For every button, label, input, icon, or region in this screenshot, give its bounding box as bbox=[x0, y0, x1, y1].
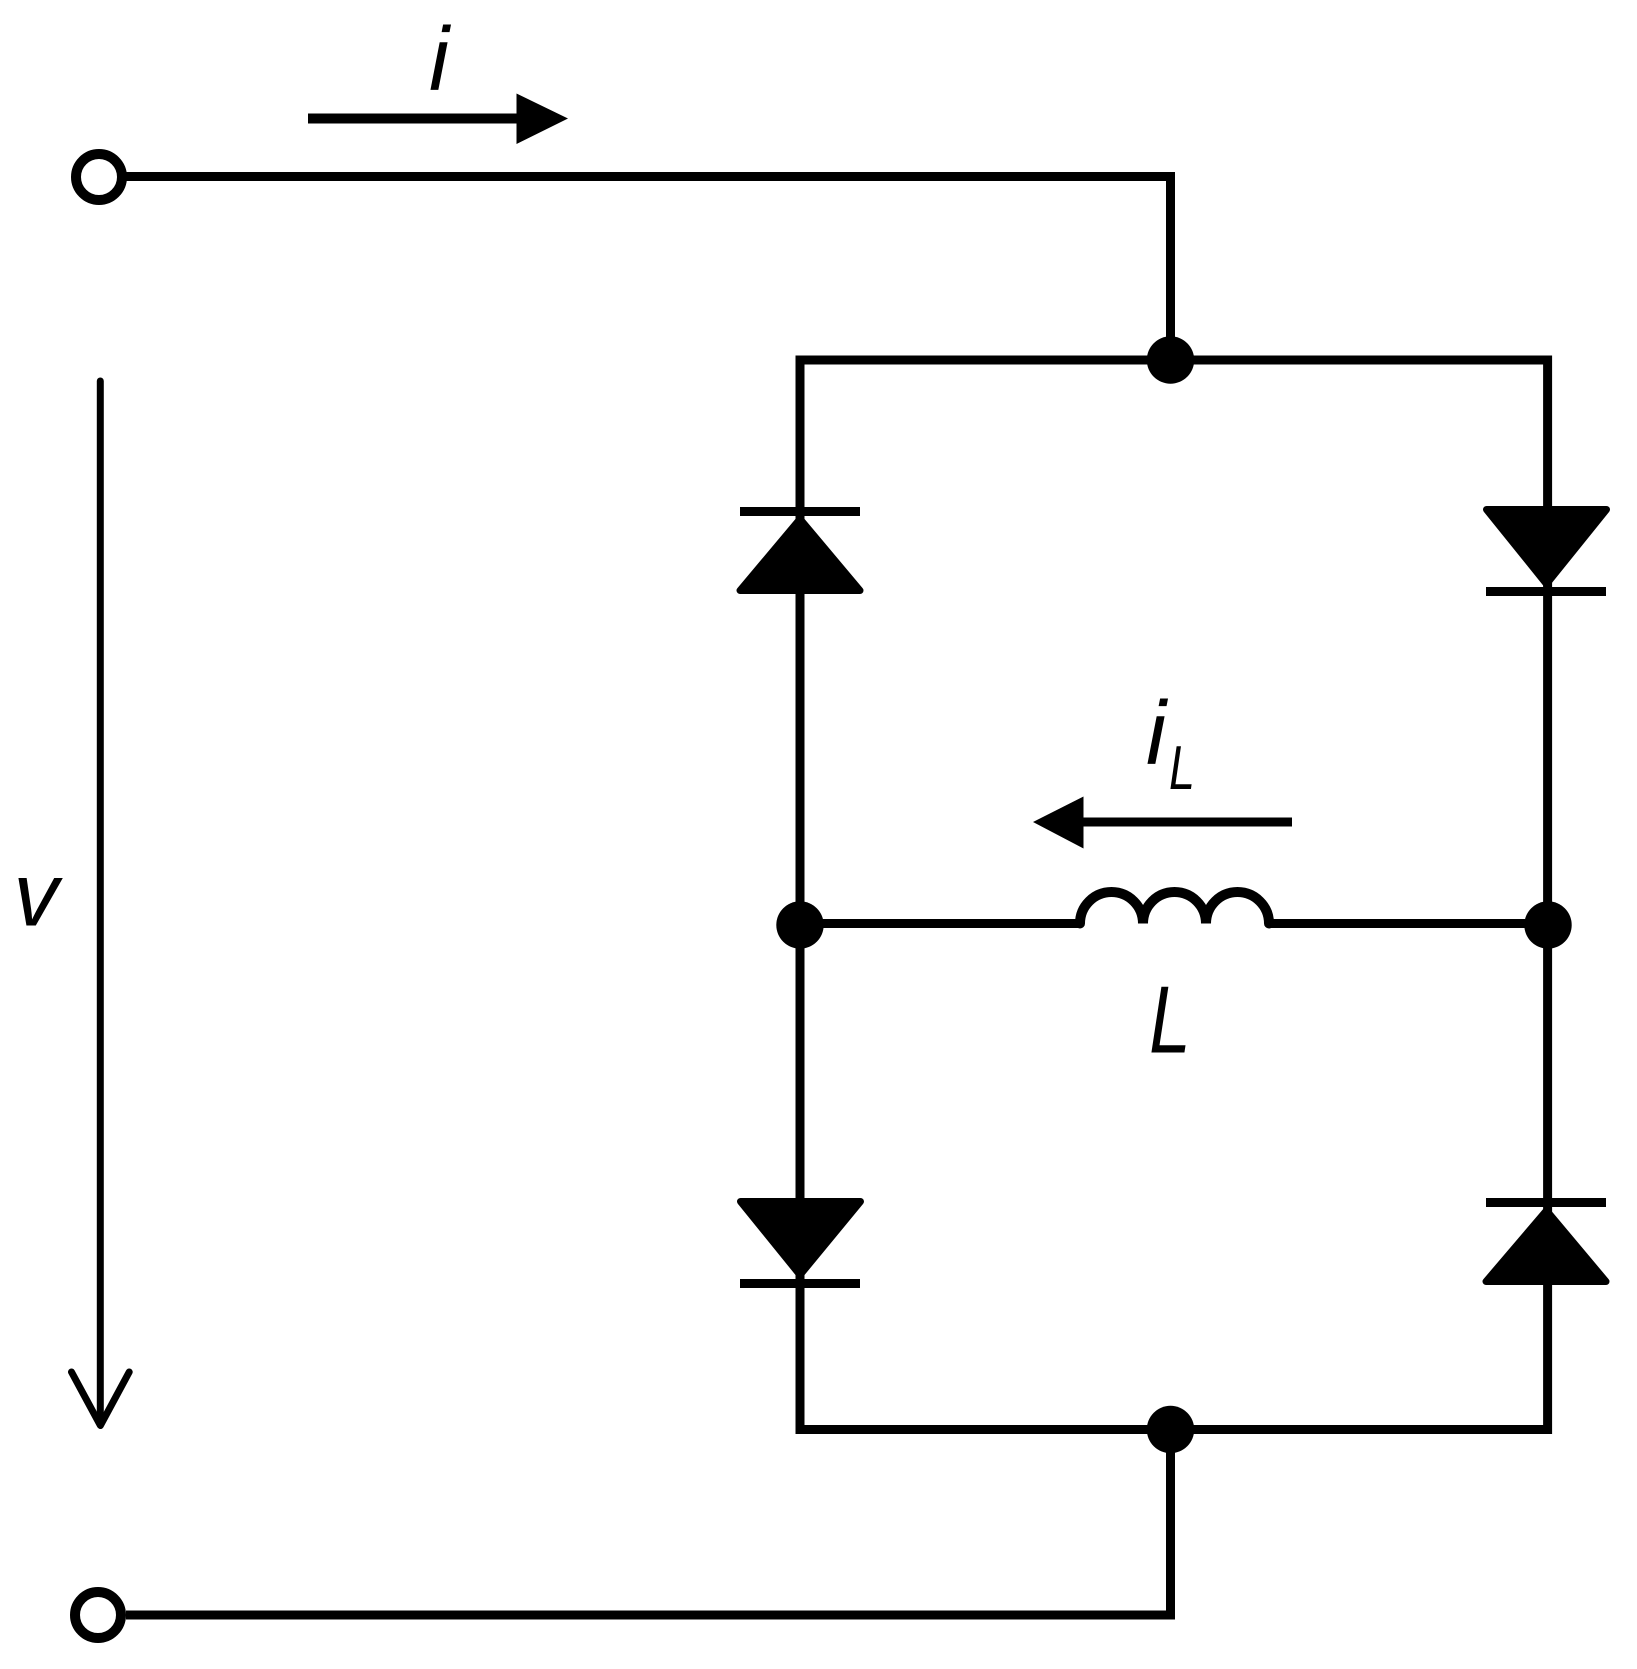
svg-text:L: L bbox=[1169, 732, 1195, 802]
svg-text:i: i bbox=[1146, 684, 1169, 784]
svg-text:L: L bbox=[1149, 967, 1191, 1074]
svg-text:v: v bbox=[14, 846, 64, 946]
svg-text:i: i bbox=[429, 10, 452, 110]
